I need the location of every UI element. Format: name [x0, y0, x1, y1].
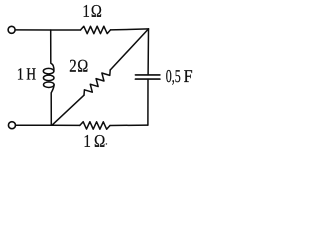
label 1 ohm bottom [83, 131, 105, 151]
inductor L 1H loop3 [44, 82, 55, 88]
resistor 1-ohm bottom zigzag [80, 122, 110, 129]
wire inductor branch upper [51, 30, 54, 71]
svg-text:H: H [26, 65, 36, 84]
inductor L 1H loop1 [43, 68, 54, 74]
svg-text:Ω: Ω [77, 56, 88, 76]
wire right lower (capacitor to corner) [147, 79, 149, 125]
svg-text:1: 1 [17, 65, 24, 84]
wire bottom-right (corner to resistor) [110, 124, 148, 126]
capacitor C 0,5F top plate [135, 74, 160, 76]
svg-text:0,5: 0,5 [166, 66, 181, 86]
label 1 H inductor [17, 65, 36, 84]
wire top-left (terminal to resistor R-top) [15, 29, 80, 31]
resistor 1-ohm top zigzag [81, 26, 111, 33]
label 1 ohm top [82, 1, 102, 21]
wire inductor branch lower [51, 85, 54, 126]
speck after bottom label [106, 143, 108, 145]
label 2 ohm diagonal [69, 56, 88, 76]
svg-text:1: 1 [83, 131, 91, 151]
wire right upper (corner to capacitor) [147, 29, 149, 75]
label 0,5 F capacitor [166, 66, 193, 86]
svg-text:Ω: Ω [91, 1, 102, 21]
terminal top-left [8, 26, 15, 33]
svg-text:2: 2 [69, 56, 76, 76]
inductor L 1H loop2 [43, 75, 54, 81]
svg-text:1: 1 [82, 1, 90, 21]
wire top-right (resistor to corner) [111, 29, 149, 30]
resistor 2-ohm diagonal zigzag [84, 70, 110, 95]
terminal bottom-left [8, 122, 15, 129]
svg-text:F: F [184, 66, 193, 86]
wire diagonal lower (junction to resistor 2-ohm) [52, 95, 84, 125]
svg-text:Ω: Ω [94, 131, 105, 151]
capacitor C 0,5F bottom plate [135, 78, 160, 80]
wire bottom-left (resistor to terminal) [16, 124, 80, 126]
wire diagonal upper (resistor to top-right corner) [110, 29, 148, 70]
